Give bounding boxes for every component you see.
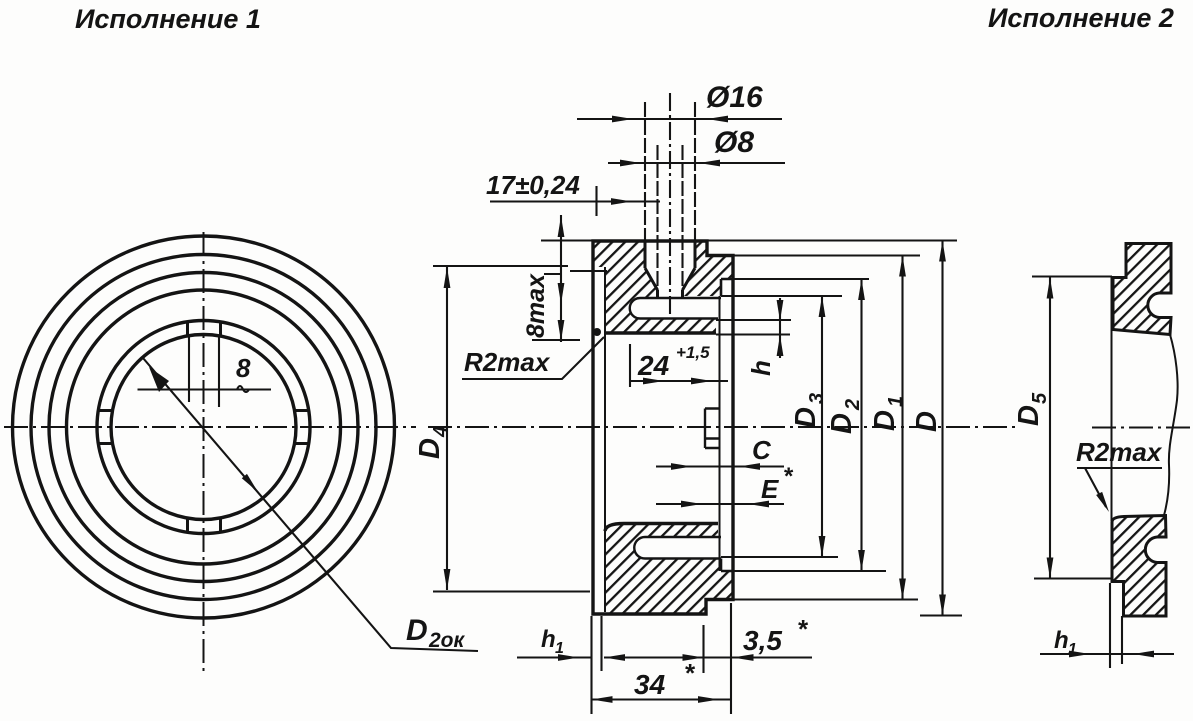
O16 projection lines [645, 102, 695, 241]
dimension D4 [414, 266, 590, 592]
dimension 8max [522, 215, 580, 342]
dimension D2 [826, 279, 865, 571]
hatch lower block [605, 524, 733, 615]
dimension D3 [790, 296, 828, 557]
svg-text:1: 1 [885, 396, 907, 407]
bore edge line [719, 296, 721, 571]
svg-text:8max: 8max [522, 273, 550, 338]
hatch right top block [1113, 244, 1171, 335]
section outer profile [593, 241, 733, 614]
dimension D [911, 241, 946, 616]
dimension 3,5* [604, 614, 812, 661]
lower right step lines [721, 559, 733, 572]
svg-text:3: 3 [806, 393, 828, 404]
left view circle D outer [13, 236, 395, 618]
left view centerline horizontal [4, 426, 416, 428]
dimension 8 text [236, 353, 251, 383]
hole O8 walls [658, 290, 683, 298]
svg-text:D: D [826, 413, 858, 434]
dimension 17±0,24 [486, 170, 660, 216]
middle centerline horizontal [428, 426, 1016, 428]
svg-text:E: E [761, 474, 779, 504]
slot north [188, 322, 221, 336]
right extension lines [541, 241, 962, 616]
lower slot groove [634, 537, 721, 559]
title Исполнение 1 [75, 4, 261, 34]
hatch upper left block [593, 241, 716, 333]
slot east [295, 411, 309, 444]
right bottom block outline [1112, 516, 1166, 617]
svg-text:1: 1 [555, 640, 564, 657]
right inner cylinder line [1111, 278, 1113, 522]
lower flange top face [605, 524, 718, 532]
upper right step lines [721, 279, 733, 296]
svg-text:17±0,24: 17±0,24 [486, 170, 580, 200]
bottom extension lines [592, 603, 732, 714]
left view circle slot outer [97, 321, 310, 534]
left view circle D4 [49, 273, 358, 582]
svg-text:8: 8 [236, 353, 251, 383]
label R2max right [1076, 437, 1163, 514]
hole O16 walls [645, 241, 695, 268]
right centerline [1092, 427, 1193, 429]
keyway in bore [705, 409, 720, 449]
svg-text:C: C [752, 435, 772, 465]
dimension 24+1,5 [630, 343, 728, 387]
right top block outline [1113, 244, 1171, 335]
svg-text:5: 5 [1029, 392, 1051, 404]
svg-text:D: D [406, 614, 428, 647]
dimension 8 extension lines [189, 336, 219, 407]
svg-text:24: 24 [637, 350, 670, 381]
svg-text:2ок: 2ок [428, 629, 466, 652]
label R2max middle [462, 337, 604, 379]
slot south [188, 518, 221, 532]
label D2ok [406, 614, 466, 652]
svg-text:Ø8: Ø8 [714, 126, 754, 159]
title Исполнение 2 [988, 3, 1174, 33]
upper slot groove [630, 298, 721, 319]
svg-text:R2max: R2max [1076, 437, 1163, 467]
left view centerline vertical [203, 232, 205, 674]
svg-text:Ø16: Ø16 [706, 81, 763, 114]
dimension h [716, 298, 791, 376]
slot west [98, 411, 112, 444]
left inner face line [604, 267, 606, 612]
left view circle D1 [31, 255, 376, 600]
svg-text:D: D [414, 438, 446, 459]
svg-text:D: D [790, 407, 822, 428]
svg-text:R2max: R2max [464, 347, 551, 377]
left view circle D3 [67, 290, 341, 564]
svg-text:+1,5: +1,5 [676, 343, 710, 362]
svg-text:D: D [911, 411, 943, 432]
svg-text:4: 4 [430, 426, 452, 438]
dimension D5 [1013, 277, 1112, 579]
svg-text:h: h [746, 360, 776, 376]
dimension h1 right [1040, 583, 1174, 668]
O8 projection lines [658, 145, 683, 290]
svg-text:3,5: 3,5 [743, 625, 782, 656]
dimension O16 [577, 81, 782, 122]
hatch upper right block [683, 241, 734, 296]
svg-text:34: 34 [634, 669, 666, 700]
dimension E* [656, 463, 794, 507]
svg-text:2: 2 [842, 399, 864, 411]
dimension O8 [608, 126, 785, 166]
svg-text:Исполнение 1: Исполнение 1 [75, 4, 261, 34]
dimension D1 [869, 256, 907, 600]
svg-text:h: h [1054, 627, 1069, 654]
hole centerline vertical [669, 93, 671, 318]
svg-text:D: D [869, 410, 901, 431]
svg-text:Исполнение 2: Исполнение 2 [988, 3, 1174, 33]
hatch right bottom block [1112, 516, 1166, 617]
break wavy line [1164, 335, 1178, 518]
left view circle D2ok inner [111, 335, 296, 520]
dimension C [656, 435, 784, 470]
leader D2ok diagonal [143, 358, 478, 651]
countersink cone [645, 268, 695, 290]
upper flange bottom face [605, 331, 716, 334]
left face step top [570, 270, 607, 272]
svg-text:D: D [1013, 405, 1045, 426]
dimension 8 line [138, 386, 272, 392]
R2 fillet dot [593, 328, 601, 336]
dimension h1 middle [517, 626, 592, 661]
svg-text:h: h [541, 626, 556, 653]
dimension 34* [592, 658, 732, 703]
svg-text:1: 1 [1068, 641, 1077, 658]
